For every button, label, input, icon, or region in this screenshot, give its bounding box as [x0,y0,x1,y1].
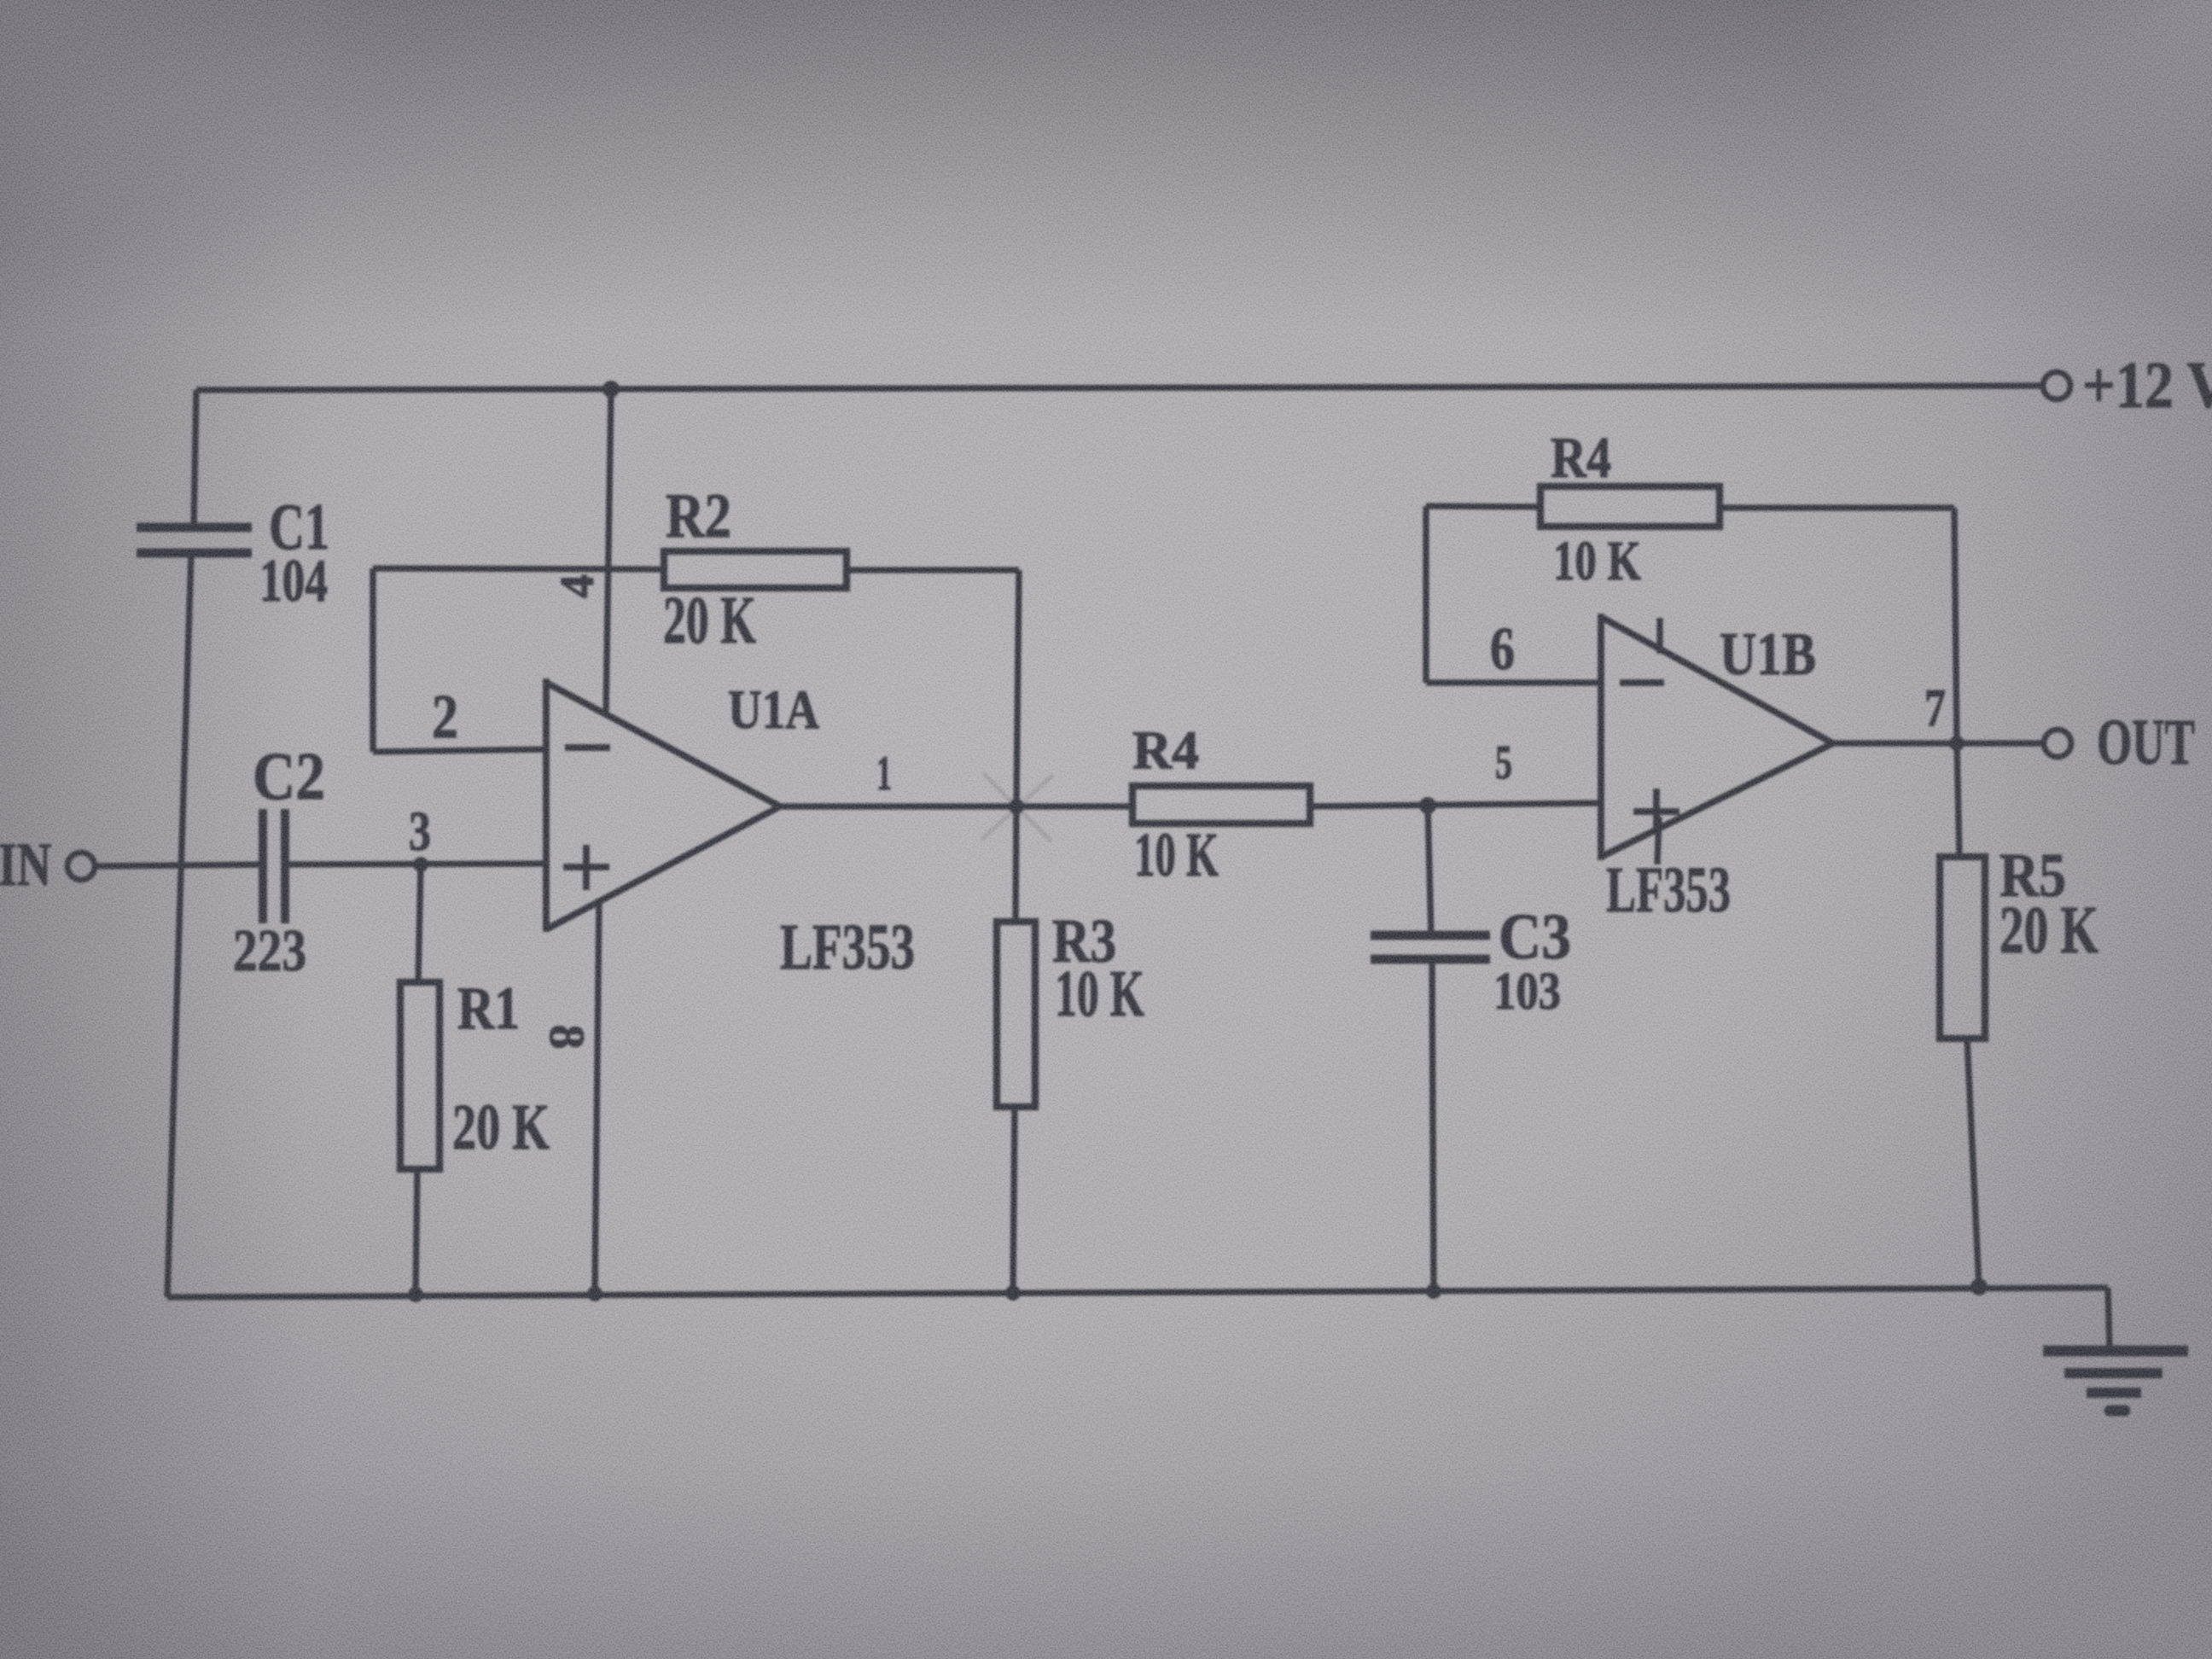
wire R3 to ground rail [1013,1107,1015,1293]
wire pin8 to ground [595,899,599,1294]
U1A inverting input symbol [565,744,610,751]
node output junction [1009,799,1024,814]
U1A noninverting input symbol [563,845,609,890]
wire feedback2 down to output [1954,508,1957,743]
node pin8-ground junction [587,1286,602,1301]
ground symbol [2043,1346,2188,1357]
wire feedback left vertical [370,568,376,752]
wire C3 to ground rail [1432,959,1434,1291]
wire U1B output [1833,740,2044,747]
wire feedback2 top [1426,506,1540,507]
op-amp U1A [546,678,780,932]
U1B bottom power stub [1657,817,1659,864]
U1B noninverting input symbol [1633,789,1679,835]
op-amp U1B [1601,614,1833,860]
wire ground stem [2108,1288,2110,1349]
wire R4 feedback to corner [1720,504,1954,511]
resistor R2 [664,551,847,588]
node R5-ground junction [1970,1278,1988,1295]
resistor R4 feedback [1540,486,1720,527]
node output2 junction [1949,736,1965,751]
wire R2 to corner [847,567,1019,573]
pencil cross mark at node 1 [981,773,1053,841]
wire R1 to ground rail [416,1169,417,1295]
capacitor C2 [263,809,285,923]
wire corner down to output node [1016,570,1019,806]
node C3-ground junction [1426,1284,1441,1299]
node 5 junction [1419,797,1436,814]
node top-rail junction [602,381,620,398]
resistor R5 [1940,857,1985,1039]
capacitor C3 [1371,935,1490,959]
wire R4 to node5 and pin5 [1310,803,1601,806]
wire pin6 input [1426,679,1601,686]
wire feedback top [373,568,664,569]
U1B inverting input symbol [1620,679,1664,686]
wire node to R3 [1016,806,1016,922]
wire U1A output [780,803,1132,810]
node R3-ground junction [1005,1285,1021,1301]
resistor R1 [400,982,439,1169]
wire pin2 input [373,749,546,752]
terminal OUT circle [2044,730,2071,757]
wire node5 to C3 [1428,806,1431,935]
resistor R3 [997,922,1035,1107]
wire IN to C2 [95,864,261,866]
wire feedback2 left vertical [1423,506,1429,683]
U1B top power stub [1656,618,1663,654]
node R1-ground junction [408,1287,423,1302]
wire node3 to R1 [418,864,421,982]
resistor R4 [1132,786,1310,824]
node 3 junction [413,857,428,872]
wire node to R5 [1957,743,1959,857]
wire C2 to noninverting input [285,864,546,864]
wire pin4 to +12V [606,390,611,713]
terminal +12V circle [2043,372,2070,399]
wire ground rail [167,1288,2108,1297]
capacitor C1 [137,527,252,553]
terminal IN circle [67,853,95,880]
wire left branch upper [194,390,196,527]
wire R5 to ground rail [1967,1039,1979,1287]
wire left branch lower [167,554,191,1297]
wire +12V rail [196,386,2043,390]
